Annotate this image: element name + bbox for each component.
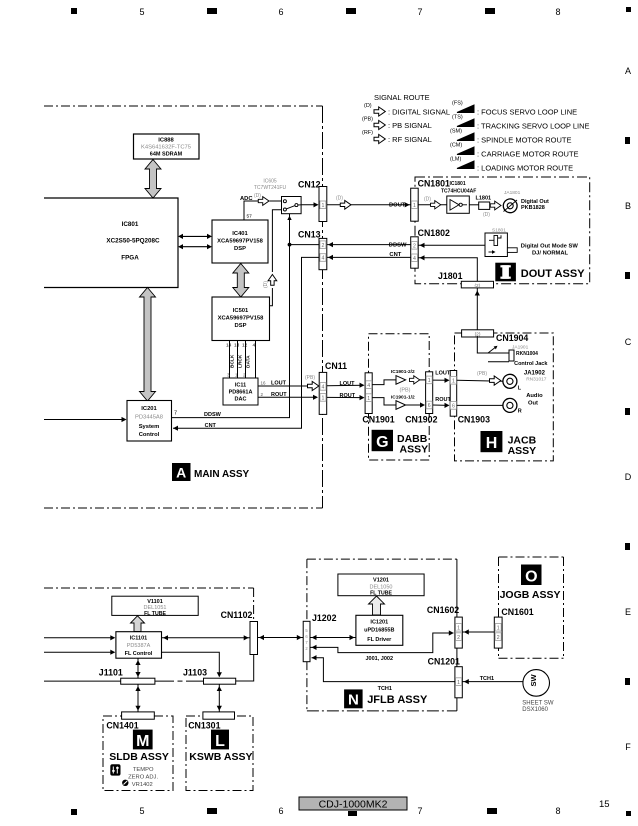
svg-text:: SPINDLE MOTOR ROUTE: : SPINDLE MOTOR ROUTE [477,136,571,145]
svg-text:J1103: J1103 [183,667,207,677]
svg-text:1: 1 [452,379,455,385]
svg-text:IC1801: IC1801 [450,181,466,187]
svg-text:(TS): (TS) [452,115,463,121]
connector CN1401 [106,712,154,731]
svg-text:L1801: L1801 [476,195,492,201]
wire J1202 to IC1201 [310,637,356,639]
svg-text:: LOADING MOTOR ROUTE: : LOADING MOTOR ROUTE [477,164,573,173]
svg-text:JA1801: JA1801 [504,190,521,196]
wire CN1902 to CN1903 LOUT [433,379,449,381]
op-amp IC1901-2/2 [372,369,425,394]
svg-text:8: 8 [555,7,560,17]
svg-text:FL Control: FL Control [125,651,153,657]
wire TCH1 J1202 to CN1201 [312,658,455,682]
label A MAIN ASSY [172,463,250,481]
svg-text:FPGA: FPGA [121,255,139,262]
svg-text:DEL1050: DEL1050 [370,584,393,590]
tempo icon [110,764,120,775]
svg-text:G: G [376,434,388,451]
wire CN1601 to CN1602 [462,631,494,633]
top border tick squares [71,7,631,14]
svg-text:(PB): (PB) [400,387,411,393]
connector J1801 [438,271,494,289]
legend focus servo loop line [452,101,577,117]
svg-text:13: 13 [234,343,240,349]
svg-text:DSP: DSP [235,323,247,329]
svg-text:TCH1: TCH1 [378,686,392,692]
svg-text:ROUT: ROUT [435,397,451,403]
bus arrow FPGA-IC201 (gray double arrow) [140,288,156,402]
svg-text:CN1801: CN1801 [418,178,450,188]
svg-text:TEMPO: TEMPO [133,767,154,773]
svg-text:FL TUBE: FL TUBE [144,611,166,617]
fl control IC1101 [116,632,162,659]
right border tick squares [625,137,630,685]
svg-text:J001, J002: J001, J002 [366,656,394,662]
connector CN1901 [362,373,394,425]
svg-text:LOUT: LOUT [435,370,451,376]
connector CN1602 [427,605,462,648]
label H JACB ASSY [481,431,537,457]
wire S1801 to CN1802 pin2 [418,244,485,246]
wire J1801 to CN1904 [476,288,478,330]
svg-text:A: A [176,465,186,481]
svg-text:ASSY: ASSY [508,445,537,457]
svg-text:DDSW: DDSW [389,242,407,248]
switch IC605 [282,197,302,214]
svg-text:XCA59697PV158: XCA59697PV158 [217,239,264,245]
wire DSP2 to switch (D) up arrow [270,210,282,306]
dsp IC401 [212,220,268,263]
svg-text:CN11: CN11 [325,361,347,371]
svg-text:64M SDRAM: 64M SDRAM [150,152,183,158]
svg-text:LOUT: LOUT [271,381,287,387]
connector CN12 [298,180,327,222]
label O JOGB ASSY [500,565,561,602]
svg-text:(CM): (CM) [450,143,462,149]
SLDB ASSY boundary (dash-dot) [103,716,173,791]
svg-text:MAIN ASSY: MAIN ASSY [194,469,250,480]
svg-text:E: E [625,607,631,617]
wire CN12 to CN1801 with (D) [327,204,411,206]
inductor L1801 [469,195,491,218]
svg-text:XCA59697PV158: XCA59697PV158 [218,316,265,322]
control jack JA1901 [477,336,548,367]
wire DDSW select vertical to switch [289,214,291,245]
svg-text:K4S641632F-TC75: K4S641632F-TC75 [141,145,191,151]
fl driver IC1201 [356,615,403,645]
svg-text:6: 6 [278,806,283,816]
connector CN13 [298,230,327,270]
svg-text:DDSW: DDSW [204,412,222,418]
svg-text:PD5387A: PD5387A [127,643,151,649]
wire CNT CN13 to CN1802 [327,256,411,258]
legend spindle motor route [450,129,571,145]
svg-text:CNT: CNT [389,252,401,258]
svg-text:8: 8 [555,806,560,816]
svg-text:4: 4 [253,343,256,349]
svg-text:PD3445A8: PD3445A8 [135,414,163,420]
svg-text:J1101: J1101 [99,667,123,677]
svg-text:VR1402: VR1402 [132,782,153,788]
wire CN11 to CN1901 ROUT [327,396,364,398]
legend loading motor route [450,157,573,173]
dac IC11 [223,378,258,405]
svg-text:Out: Out [528,401,538,407]
title block CDJ-1000MK2 [299,797,407,811]
svg-text:FL TUBE: FL TUBE [370,591,392,597]
svg-text:(SM): (SM) [450,129,462,135]
svg-text:1: 1 [321,203,324,209]
wire J1202 to CN1602 via J001 J002 [310,633,453,653]
svg-text:(D): (D) [254,193,261,199]
svg-text:JA1902: JA1902 [524,370,546,376]
svg-text:J1202: J1202 [312,613,337,623]
wire ADC from DSP1 pin57 to switch [244,201,282,220]
svg-text:7: 7 [417,7,422,17]
label I DOUT ASSY [495,263,585,282]
svg-text:CDJ-1000MK2: CDJ-1000MK2 [319,799,388,811]
wire CN1802 pin4 to J1801 [418,258,477,282]
svg-text:DSX1060: DSX1060 [522,707,548,713]
dsp2 bottom pins to dac [230,341,256,379]
svg-text:PD8661A: PD8661A [229,390,253,396]
svg-text:L: L [215,733,225,750]
vr1402 adjuster [122,780,153,788]
svg-text:LOUT: LOUT [340,381,356,387]
svg-text:XC2S50-5PQ208C: XC2S50-5PQ208C [106,238,160,245]
svg-text:(RF): (RF) [362,130,373,136]
wire dac ROUT to CN11 [258,396,317,398]
svg-text:LRCK: LRCK [238,354,244,368]
KSWB ASSY boundary (dash-dot) [186,716,253,791]
svg-text:C: C [625,337,632,347]
svg-text:R: R [518,408,522,414]
svg-text:CN1301: CN1301 [188,721,220,731]
svg-text:5: 5 [139,7,144,17]
svg-text:JFLB ASSY: JFLB ASSY [367,694,428,706]
svg-text:7: 7 [174,411,177,417]
svg-text:DSP: DSP [234,246,246,252]
wire CN1102 down to J1103 [236,655,254,682]
svg-text:DAC: DAC [235,397,247,403]
svg-text:6: 6 [452,404,455,410]
svg-text:Digital Out Mode SW: Digital Out Mode SW [521,243,579,249]
fpga IC801 (box open on left) [44,198,178,288]
JACB ASSY boundary (dash-dot) [455,333,554,461]
connector CN1903 [450,371,490,425]
svg-text:Control Jack: Control Jack [514,361,548,367]
svg-text:TC7WT241FU: TC7WT241FU [254,185,287,191]
svg-text:Control: Control [139,432,160,438]
wire J1101 to CN1401 [137,684,139,711]
wire TCH1 sheet sw to CN1201 [462,681,523,683]
svg-text:: DIGITAL SIGNAL: : DIGITAL SIGNAL [388,108,450,117]
svg-text:(D): (D) [336,196,343,202]
top border zone numbers [139,7,560,17]
svg-text:N: N [348,692,359,709]
wire dac LOUT to CN11 [258,385,319,387]
bottom border tick squares [71,808,631,816]
sheet switch DSX1060 [522,670,554,713]
svg-text:ASSY: ASSY [400,443,429,455]
label N JFLB ASSY [344,689,428,708]
svg-text:TCH1: TCH1 [480,676,494,682]
bus arrow DSP1-DSP2 (gray double arrow) [233,264,249,298]
svg-text:SW: SW [529,673,538,686]
audio jack R [503,393,543,415]
wire DDSW CN13 to CN1802 [327,244,411,246]
wire J1101 to J1103 (with boundary dash) [155,680,204,682]
svg-text:: RF SIGNAL: : RF SIGNAL [388,135,432,144]
svg-text:7: 7 [417,806,422,816]
arrow IC1201 to V1201 [369,596,385,615]
legend rf signal [362,130,432,144]
svg-text:6: 6 [428,403,431,409]
svg-text:IC201: IC201 [141,406,157,412]
svg-text:2: 2 [457,635,460,641]
svg-text:CN1601: CN1601 [501,607,533,617]
dsp IC501 [212,297,270,341]
svg-text:BCLK: BCLK [230,354,236,368]
svg-text:J1801: J1801 [438,271,463,281]
svg-text:(D): (D) [483,212,490,218]
svg-text:TC74HCU04AF: TC74HCU04AF [441,189,476,195]
svg-text:CN1901: CN1901 [362,415,394,425]
op-amp IC1901-1/2 [372,394,425,409]
svg-text:2: 2 [497,635,500,641]
svg-text:(D): (D) [364,103,372,109]
svg-text:5: 5 [139,806,144,816]
svg-text:JA1901: JA1901 [512,345,529,351]
wire CN11 to CN1901 LOUT [327,384,364,387]
svg-text:System: System [139,424,160,430]
svg-text:SLDB ASSY: SLDB ASSY [109,751,169,763]
wire switch output to CN12 pin1 [301,204,318,206]
svg-text:IC1101: IC1101 [130,636,147,642]
wire CN1102 to J1202 [258,637,304,639]
system control IC201 [127,401,172,442]
svg-text:CN1902: CN1902 [405,415,437,425]
svg-text:IC11: IC11 [235,383,246,389]
sdram IC888 [134,134,200,159]
svg-text:4: 4 [367,383,370,389]
svg-text:Audio: Audio [526,393,543,399]
svg-text:A: A [625,66,631,76]
connector CN1201 [428,656,463,698]
connector CN1904 [462,330,529,343]
connector CN1301 [188,712,234,731]
svg-text:(PB): (PB) [305,375,315,381]
wire CN1902 to CN1903 ROUT [433,404,449,406]
svg-text:CN1201: CN1201 [428,656,460,666]
DABB ASSY boundary (dash-dot) [369,334,430,460]
inverter IC1801 [447,196,470,213]
arrow IC1101 to V1101 [131,616,145,632]
fl tube V1201 [338,574,424,597]
junction DDSW [288,243,292,247]
svg-text:: PB SIGNAL: : PB SIGNAL [388,121,432,130]
connector CN1802 [411,228,450,268]
label G DABB ASSY [372,430,428,456]
svg-text:KSWB ASSY: KSWB ASSY [189,751,252,763]
svg-text:V1201: V1201 [373,578,389,584]
svg-text:12: 12 [242,343,248,349]
svg-text:: FOCUS SERVO LOOP LINE: : FOCUS SERVO LOOP LINE [477,108,577,117]
svg-text:SIGNAL ROUTE: SIGNAL ROUTE [374,93,430,102]
svg-text:1: 1 [428,378,431,384]
svg-text:2: 2 [413,244,416,250]
svg-text:ADC: ADC [240,196,253,202]
svg-text:CN1602: CN1602 [427,605,459,615]
svg-text:15: 15 [599,799,610,810]
wire J1103 to CN1301 [218,684,220,711]
label L KSWB ASSY [189,730,252,763]
svg-text:57: 57 [247,214,253,220]
svg-text:ROUT: ROUT [340,393,356,399]
svg-text:4: 4 [322,385,325,391]
svg-text:(D): (D) [424,197,431,203]
svg-text:ZERO ADJ.: ZERO ADJ. [128,774,158,780]
connector J1103 [183,667,236,684]
connector CN1102 [221,610,258,655]
svg-text:IC1901-1/2: IC1901-1/2 [391,394,415,400]
JFLB ASSY boundary (dash-dot) [307,559,457,711]
bus arrows FPGA-DSP1 [181,236,209,246]
svg-text:IC501: IC501 [233,308,249,314]
svg-text:CN1904: CN1904 [496,333,528,343]
svg-text:IC1901-2/2: IC1901-2/2 [391,369,415,375]
svg-text:1: 1 [457,626,460,632]
connector CN1601 [494,607,533,648]
svg-text:ROUT: ROUT [271,392,287,398]
switch S1801 [485,228,517,257]
svg-text:(LM): (LM) [450,157,461,163]
svg-text:DOUT: DOUT [389,203,406,209]
wire CN1903 to audio L with (PB) [457,380,503,381]
label M SLDB ASSY [109,730,169,763]
svg-text:RN31017: RN31017 [526,376,547,382]
fl tube V1101 [112,596,198,617]
svg-text:2: 2 [321,243,324,249]
svg-text:D: D [625,472,632,482]
wire CN1903 to audio R [457,404,503,406]
connector J1101 [99,667,155,684]
svg-text:14: 14 [226,343,232,349]
right border zone letters [625,66,632,752]
svg-text:JOGB ASSY: JOGB ASSY [500,589,561,601]
DOUT ASSY boundary (dash-dot) [415,177,590,284]
svg-text:O: O [525,569,537,586]
svg-text:F: F [625,742,631,752]
connector CN1801 [411,178,450,221]
svg-text:CN1903: CN1903 [458,415,490,425]
svg-text:1: 1 [413,203,416,209]
wire into IC201 from left [44,419,126,421]
svg-text:4: 4 [321,256,324,262]
svg-text:16: 16 [261,381,267,386]
wire CN1801 to inverter with (D) [418,204,447,206]
bottom border zone numbers [139,806,560,816]
wire CNT left of CN13 down to IC201 [173,257,319,428]
svg-text:CN13: CN13 [298,230,321,240]
svg-text:1: 1 [497,626,500,632]
svg-text:(FS): (FS) [452,101,463,107]
svg-text:RKN1004: RKN1004 [516,351,538,357]
wire IC1101 to J1103 [162,652,220,676]
svg-text:1: 1 [457,680,460,686]
legend digital signal [364,103,450,117]
svg-text:(PB): (PB) [362,117,373,123]
svg-text:uPD16855B: uPD16855B [364,628,394,634]
svg-text:DJ/ NORMAL: DJ/ NORMAL [532,250,569,256]
svg-text:1: 1 [322,396,325,402]
legend carriage motor route [450,143,579,159]
svg-text:DATA: DATA [246,355,252,368]
svg-text:IC888: IC888 [158,138,174,144]
svg-text:SHEET SW: SHEET SW [522,701,554,707]
svg-text:CNT: CNT [205,423,217,429]
svg-text:CN1802: CN1802 [418,228,450,238]
svg-text:: TRACKING SERVO LOOP LINE: : TRACKING SERVO LOOP LINE [477,122,590,131]
legend tracking servo loop line [452,115,590,131]
audio jack L JA1902 [503,370,547,391]
svg-text:(PB): (PB) [477,371,487,377]
MAIN ASSY boundary (dash-dot) [44,106,323,508]
svg-text:6: 6 [278,7,283,17]
svg-text:1: 1 [367,396,370,402]
svg-text:CN1401: CN1401 [106,721,138,731]
connector CN1902 [405,372,437,425]
svg-text:IC801: IC801 [122,221,139,228]
svg-text:IC401: IC401 [232,231,248,237]
svg-text:(D): (D) [263,281,269,288]
svg-text:4: 4 [413,256,416,262]
wires into IC1101 from left [44,637,114,639]
wire DDSW left of CN13 down to IC201 pin7 [172,245,320,418]
svg-text:B: B [625,201,631,211]
svg-text:CN1102: CN1102 [221,610,253,620]
svg-text:M: M [136,733,149,750]
connector CN11 [319,361,347,415]
svg-text:DOUT ASSY: DOUT ASSY [521,268,585,280]
bus arrow IC888-FPGA (gray double arrow) [145,160,161,199]
legend pb signal [362,117,432,131]
lower boundary (dash-dot) to CN1102 [44,588,254,622]
wire IC1101 to J1101 [137,659,139,679]
svg-text:: CARRIAGE MOTOR ROUTE: : CARRIAGE MOTOR ROUTE [477,150,579,159]
connector J1202 [303,613,336,662]
svg-text:PKB1828: PKB1828 [521,205,545,211]
wire into J1101 from left [44,680,121,682]
svg-text:IC605: IC605 [263,179,277,185]
svg-text:FL Driver: FL Driver [367,637,392,643]
wire IC1101 to CN1102 [162,637,251,639]
JOGB ASSY boundary [499,557,564,658]
svg-text:CN12: CN12 [298,180,321,190]
digital out jack JA1801 [490,190,549,213]
svg-text:IC1201: IC1201 [370,620,388,626]
svg-text:H: H [486,435,498,452]
